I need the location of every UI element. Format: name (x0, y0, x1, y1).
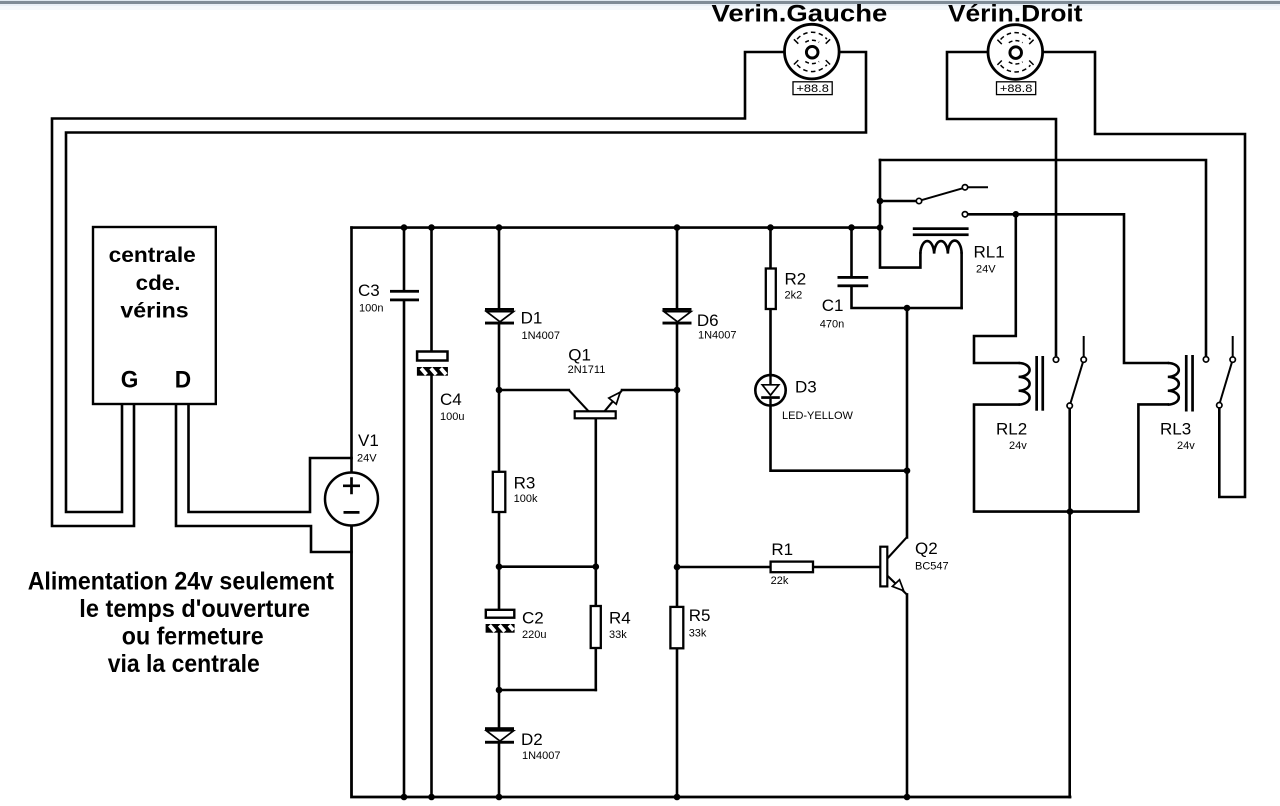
svg-text:RL2: RL2 (996, 420, 1027, 439)
junction dot Q1 emitter D6 (674, 387, 681, 394)
relay RL1 coil (920, 241, 961, 254)
resistor R4 (591, 606, 601, 648)
svg-text:D6: D6 (697, 311, 719, 330)
junction dot rail bottom C3 (401, 794, 408, 801)
capacitor C2 polarized (486, 610, 515, 633)
svg-text:24V: 24V (357, 453, 377, 465)
relay RL2 coil (1019, 363, 1030, 405)
wire C3 column (403, 228, 406, 797)
wire RL1 common vertical and coil left leg (880, 160, 920, 268)
wire C4 column (430, 228, 433, 797)
svg-text:1N4007: 1N4007 (522, 330, 561, 342)
svg-text:C1: C1 (822, 296, 844, 315)
svg-text:ou fermeture: ou fermeture (122, 623, 264, 651)
wire +24V top rail (352, 226, 881, 229)
relay RL2 core (1035, 356, 1044, 411)
voltmeter +88.8 Gauche (793, 82, 832, 95)
junction dot R3 C2 (496, 563, 503, 570)
svg-text:RL1: RL1 (974, 243, 1005, 262)
junction dot rail bottom R5 (674, 794, 681, 801)
capacitor C1 (838, 276, 869, 287)
relay RL3 coil (1168, 363, 1179, 405)
motor Verin.Gauche (785, 24, 840, 79)
svg-text:24v: 24v (1009, 440, 1027, 452)
wire D6 R5 column (676, 228, 679, 797)
wire Q1 emitter to D6 column (622, 389, 677, 392)
svg-text:R1: R1 (771, 540, 793, 559)
junction dot rail C1 (848, 224, 855, 231)
LED D3 (755, 375, 785, 405)
svg-text:le temps d'ouverture: le temps d'ouverture (79, 595, 310, 623)
transistor Q2 BC547 (880, 538, 907, 595)
wire RL1 NO node to RL2 coil (974, 214, 1019, 363)
junction dot C1 Q2 collector (904, 305, 911, 312)
capacitor C4 polarized (417, 352, 448, 376)
junction dot rail D6 (674, 224, 681, 231)
wire RL1 NO contact to RL3 coil (968, 214, 1168, 363)
svg-text:Q2: Q2 (915, 539, 938, 558)
wire R1 to Q2 base (677, 566, 880, 569)
svg-text:22k: 22k (771, 575, 789, 587)
svg-text:Verin.Gauche: Verin.Gauche (712, 1, 888, 28)
junction dot relay coils return (1067, 508, 1074, 515)
junction dot rail bottom D2 (496, 794, 503, 801)
svg-text:V1: V1 (358, 431, 379, 450)
relay RL1 switch (916, 185, 988, 217)
junction dot RL1 NO node (1013, 211, 1020, 218)
box centrale cde verins (93, 227, 216, 404)
resistor R2 (766, 269, 776, 310)
svg-text:Alimentation 24v seulement: Alimentation 24v seulement (28, 568, 335, 596)
wire C1 column and to RL1 coil leg (852, 228, 962, 308)
svg-text:R5: R5 (689, 606, 711, 625)
diode D2 (485, 727, 514, 744)
wire C2 to R4 bottom link (499, 689, 596, 692)
svg-text:Vérin.Droit: Vérin.Droit (948, 1, 1083, 28)
wire V1 bottom and 0V bottom rail (352, 526, 1071, 798)
wire RL1 pole stub (880, 200, 916, 203)
voltmeter +88.8 Droit (997, 82, 1036, 95)
svg-text:D1: D1 (521, 309, 543, 328)
wire inner loop: Verin.Gauche right pin to G left pin (66, 52, 866, 512)
top window edge strip (0, 0, 1280, 1)
wire RL1 top to RL3 contact (880, 160, 1206, 357)
svg-text:D3: D3 (795, 378, 817, 397)
svg-text:centrale: centrale (109, 243, 196, 267)
svg-text:33k: 33k (609, 629, 627, 641)
relay RL3 core (1185, 355, 1194, 412)
transistor Q1 2N1711 (569, 390, 622, 418)
svg-text:24V: 24V (976, 264, 996, 276)
wire V1 top to +24V rail (350, 228, 353, 472)
wire R2 LED column (771, 228, 908, 471)
svg-text:Q1: Q1 (568, 346, 591, 365)
junction dot RL1 pole (877, 198, 884, 205)
svg-text:R4: R4 (609, 609, 631, 628)
wire Q1 base down (594, 418, 597, 566)
svg-text:vérins: vérins (120, 299, 188, 323)
svg-text:via la centrale: via la centrale (108, 650, 260, 678)
resistor R5 (670, 607, 683, 648)
svg-text:RL3: RL3 (1160, 420, 1191, 439)
svg-text:2k2: 2k2 (785, 290, 803, 302)
svg-text:220u: 220u (522, 629, 546, 641)
junction dot rail bottom C4 (428, 794, 435, 801)
junction dot rail C3 (401, 224, 408, 231)
svg-text:D: D (175, 367, 191, 394)
wire R3/C2 to R4 link (499, 565, 596, 568)
svg-text:R2: R2 (785, 270, 807, 289)
svg-text:1N4007: 1N4007 (698, 329, 737, 341)
svg-text:+88.8: +88.8 (796, 83, 829, 95)
svg-text:LED-YELLOW: LED-YELLOW (782, 410, 854, 422)
svg-text:G: G (121, 367, 139, 394)
junction dot R1 R5 (674, 564, 681, 571)
relay RL1 core (913, 227, 969, 236)
relay RL2 switch (1053, 336, 1086, 408)
svg-text:100k: 100k (514, 493, 538, 505)
resistor R3 (493, 472, 506, 512)
junction dot LED return (904, 467, 911, 474)
svg-text:cde.: cde. (136, 271, 181, 295)
wire R4 vertical (594, 567, 597, 690)
motor Verin.Droit (988, 25, 1043, 80)
svg-text:470n: 470n (820, 319, 844, 331)
wire RL2 coil bottom to RL3 coil bottom (974, 404, 1168, 511)
wire D right pin to V1 plus (189, 404, 352, 512)
svg-text:2N1711: 2N1711 (568, 364, 606, 376)
resistor R1 (771, 562, 813, 573)
wire Q2 collector column (906, 308, 909, 537)
wire RL2 pole to 0V rail (1068, 408, 1071, 797)
junction dot rail end RL1 (877, 224, 884, 231)
wire D left pin to V1 minus (176, 404, 352, 552)
diode D6 (663, 308, 692, 325)
wire Q2 emitter to 0V rail (906, 594, 909, 797)
junction dot rail D1 (496, 224, 503, 231)
voltage source V1 (325, 473, 378, 526)
wire Verin.Droit left pin to RL2 contact (947, 52, 1056, 355)
junction dot rail bottom Q2 (904, 794, 911, 801)
wire Verin.Droit right pin to RL3 pole (1043, 52, 1246, 497)
svg-text:D2: D2 (521, 730, 543, 749)
svg-text:1N4007: 1N4007 (522, 750, 561, 762)
wire RL1 coil right leg (960, 254, 963, 308)
junction dot Q1 collector D1 (496, 387, 503, 394)
svg-text:C2: C2 (522, 609, 544, 628)
svg-text:C3: C3 (358, 281, 380, 300)
svg-text:33k: 33k (689, 628, 707, 640)
svg-text:+88.8: +88.8 (1000, 83, 1033, 95)
junction dot C2 R4 bottom (496, 687, 503, 694)
capacitor C3 (390, 290, 419, 301)
svg-text:100n: 100n (359, 303, 383, 315)
wire node Q1 collector (499, 389, 569, 392)
svg-text:100u: 100u (440, 411, 464, 423)
junction dot Q1 base R4 (593, 563, 600, 570)
diode D1 (485, 308, 514, 325)
wire D1 R3 C2 D2 column (498, 228, 501, 797)
junction dot rail C4 (428, 224, 435, 231)
relay RL3 switch (1203, 336, 1235, 408)
svg-text:BC547: BC547 (915, 561, 949, 573)
wire outer loop: Verin.Gauche left pin to G right pin (52, 52, 785, 526)
junction dot rail R2 (767, 224, 774, 231)
svg-text:C4: C4 (440, 390, 462, 409)
svg-text:R3: R3 (514, 474, 536, 493)
svg-text:24v: 24v (1177, 440, 1195, 452)
